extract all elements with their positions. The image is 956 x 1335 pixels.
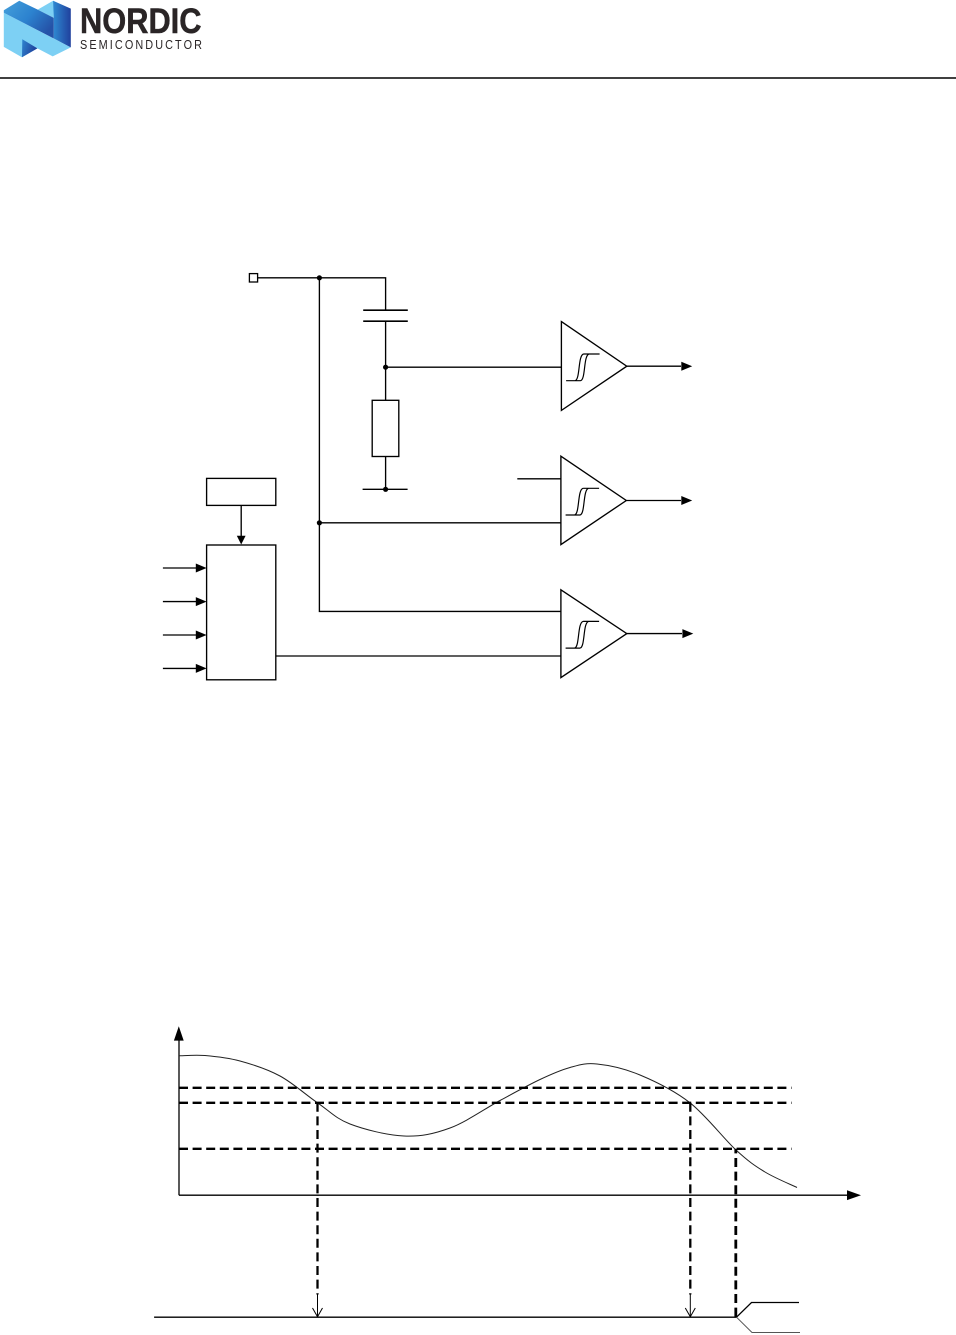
- wire node A to U1 input: [386, 366, 562, 368]
- output arrow U3: [682, 629, 693, 638]
- wire pin to capacitor: [258, 278, 386, 310]
- output wire U2: [626, 500, 681, 502]
- input arrow 4: [196, 664, 207, 673]
- logo right column: [53, 1, 71, 48]
- wire bus down left: [319, 278, 561, 612]
- output transition lower branch: [737, 1317, 801, 1332]
- t1 open arrowhead: [313, 1308, 323, 1317]
- register block B2: [207, 478, 276, 505]
- sample dashed vertical t1: [316, 1103, 318, 1295]
- t2 arrow stem: [689, 1295, 691, 1317]
- schmitt buffer U1: [561, 322, 626, 411]
- threshold dashed line VIHL: [179, 1102, 792, 1104]
- input arrow 1: [196, 564, 207, 573]
- sample dashed vertical t2: [689, 1103, 691, 1295]
- output wire U3: [627, 633, 682, 635]
- output arrow U2: [681, 496, 692, 505]
- wire capacitor to resistor: [385, 321, 387, 400]
- arrow B2 to B1: [237, 536, 246, 545]
- wire B2 to B1: [240, 505, 242, 537]
- threshold dashed line VIH: [179, 1087, 792, 1089]
- wire resistor to rail: [385, 457, 387, 490]
- junction node A: [383, 365, 388, 370]
- junction node rail: [383, 487, 388, 492]
- schmitt buffer U3: [561, 590, 627, 678]
- output wire U1: [627, 365, 681, 367]
- y axis arrow: [174, 1026, 184, 1040]
- input wire 1: [163, 567, 196, 569]
- sample dashed vertical t3: [734, 1149, 737, 1317]
- threshold dashed line VIL: [179, 1148, 792, 1150]
- resistor R1: [372, 400, 399, 456]
- input arrow 3: [196, 631, 207, 640]
- output arrow U1: [681, 362, 692, 371]
- input wire 4: [163, 667, 196, 669]
- input pin pad: [249, 274, 257, 282]
- input wire 2: [163, 601, 196, 603]
- capacitor C1: [363, 310, 408, 321]
- logo word NORDIC: [80, 4, 201, 39]
- t2 open arrowhead: [685, 1308, 695, 1317]
- junction node mid bus: [317, 520, 322, 525]
- output trace baseline: [154, 1316, 736, 1318]
- stub input U2: [517, 478, 561, 480]
- wire bus to U2 input: [319, 522, 561, 524]
- input arrow 2: [196, 597, 207, 606]
- input signal curve: [179, 1055, 797, 1187]
- input wire 3: [163, 634, 196, 636]
- logo word SEMICONDUCTOR: [80, 38, 204, 51]
- schmitt buffer U2: [561, 456, 626, 544]
- Nordic Semiconductor logo mark: [0, 0, 80, 62]
- logo light-blue top triangle: [38, 1, 54, 18]
- logo dark fold triangle: [22, 39, 37, 57]
- y axis: [178, 1039, 180, 1195]
- junction node at top bus: [317, 275, 322, 280]
- logo light-blue front faces: [4, 13, 71, 58]
- VSS rail: [363, 488, 408, 490]
- wire B1 output to U3: [276, 655, 561, 657]
- logo medium-blue diagonal band: [4, 1, 54, 39]
- output transition upper branch: [737, 1303, 800, 1318]
- x axis: [179, 1194, 849, 1196]
- t1 arrow stem: [317, 1295, 319, 1317]
- control block B1: [207, 545, 276, 680]
- x axis arrow: [847, 1190, 861, 1200]
- header rule: [0, 77, 956, 79]
